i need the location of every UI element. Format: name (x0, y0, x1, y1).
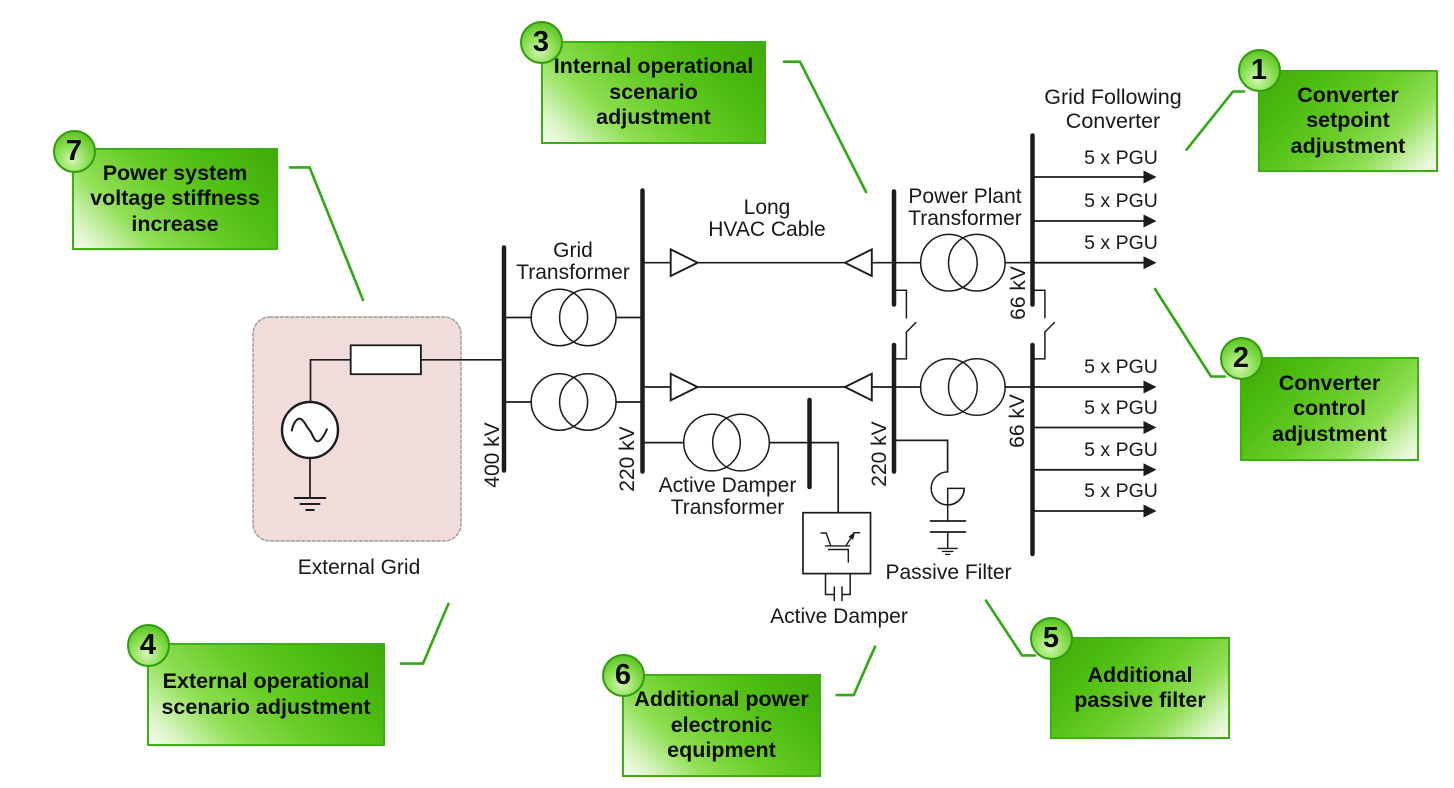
DC link legs (826, 574, 851, 601)
label power plant transformer (908, 186, 1022, 230)
bus 220 kV right upper (892, 192, 897, 305)
bus 66 kV lower (1030, 345, 1035, 554)
label 5 x PGU a1 (1084, 147, 1158, 169)
transformer power plant T3 (921, 234, 978, 291)
label 66 kV upper (1008, 266, 1030, 320)
wire damper T5 to damper bus and down to converter (769, 443, 838, 513)
wire source to resistor (311, 360, 351, 402)
switch 220kV bus coupler (894, 290, 906, 359)
leader line callout 6 (837, 647, 875, 695)
wire plant T4 to 66kV bus (1005, 386, 1032, 388)
callout box 5 additional passive filter (1050, 637, 1230, 739)
feeder 5xPGU a2 (1033, 220, 1145, 222)
callout box 4 external operational scenario adjustment (147, 643, 385, 746)
cable end cap right 2 (845, 374, 872, 401)
label 5 x PGU b2 (1084, 397, 1158, 419)
resistor external grid impedance (351, 345, 421, 374)
callout number 3 (520, 21, 563, 64)
capacitor passive filter (931, 521, 966, 532)
label 400 kV (482, 422, 504, 487)
bus active damper (807, 400, 812, 487)
cable end cap left 1 (671, 249, 698, 276)
wire plant T3 to 66kV bus (1005, 262, 1032, 264)
wire 220kV bus to plant transformer T3 (894, 262, 921, 264)
callout box 3 internal operational scenario adjustment (541, 41, 766, 144)
label 66 kV lower (1007, 394, 1029, 448)
wire grid T1 to 220kV bus (616, 317, 643, 319)
callout box 1 converter setpoint adjustment (1258, 70, 1438, 172)
IGBT symbol (821, 533, 860, 563)
transformer power plant T4 (921, 359, 978, 416)
wire HVAC cable 1 (643, 262, 895, 264)
feeder 5xPGU b1 (1033, 386, 1145, 388)
label 5 x PGU b4 (1084, 480, 1158, 502)
wire capacitor to ground (947, 532, 949, 548)
callout box 2 converter control adjustment (1240, 357, 1419, 461)
cable end cap right 1 (845, 249, 872, 276)
label long HVAC cable (708, 197, 826, 241)
callout number 4 (127, 624, 170, 667)
leader line callout 5 (986, 601, 1035, 656)
bus 400 kV (502, 248, 507, 471)
callout number 2 (1220, 337, 1263, 380)
callout number 6 (602, 654, 645, 697)
feeder 5xPGU a3 (1033, 262, 1145, 264)
label grid transformer (516, 240, 630, 284)
label active damper (770, 606, 908, 628)
reactor passive filter (931, 472, 964, 505)
wire 400kV bus to grid transformer T2 (504, 401, 531, 403)
feeder 5xPGU b3 (1033, 469, 1145, 471)
transformer active damper T5 (684, 414, 741, 471)
bus 220 kV left (640, 191, 645, 472)
cable end cap left 2 (671, 374, 698, 401)
leader line callout 2 (1155, 289, 1225, 377)
feeder 5xPGU b4 (1033, 510, 1145, 512)
wire HVAC cable 2 (643, 386, 895, 388)
wire 220kV bus to damper transformer T5 (643, 442, 684, 444)
AC voltage source (282, 402, 338, 458)
leader line callout 7 (290, 167, 363, 300)
leader line callout 1 (1187, 92, 1245, 150)
switch 66kV bus coupler (1033, 290, 1045, 359)
active damper converter box (803, 513, 871, 574)
label passive filter (885, 562, 1011, 584)
feeder 5xPGU a1 (1033, 176, 1145, 178)
transformer grid T2 (531, 374, 587, 430)
ground external grid (295, 498, 326, 510)
label 220 kV right (869, 421, 891, 486)
wire 220kV bus to plant transformer T4 (894, 386, 921, 388)
label 5 x PGU a2 (1084, 190, 1158, 212)
wire source to ground (309, 458, 311, 497)
external grid enclosure (253, 317, 461, 541)
wire resistor to 400kV bus (421, 359, 504, 361)
ground passive filter (938, 548, 957, 554)
bus 220 kV right lower (892, 345, 897, 472)
callout number 1 (1238, 49, 1281, 92)
label grid following converter (1044, 85, 1181, 133)
wire 400kV bus to grid transformer T1 (504, 317, 531, 319)
leader line callout 3 (784, 62, 866, 192)
callout box 6 additional power electronic equipment (622, 674, 821, 777)
label 5 x PGU b1 (1084, 356, 1158, 378)
callout number 5 (1030, 617, 1073, 660)
transformer grid T1 (531, 289, 587, 345)
leader line callout 4 (401, 604, 448, 664)
label 220 kV left (617, 426, 639, 491)
callout box 7 power system voltage stiffness increase (72, 148, 278, 250)
bus 66 kV upper (1030, 136, 1035, 305)
label external grid (298, 557, 421, 579)
feeder 5xPGU b2 (1033, 427, 1145, 429)
label 5 x PGU a3 (1084, 232, 1158, 254)
callout number 7 (53, 130, 96, 173)
label active damper transformer (659, 475, 797, 519)
label 5 x PGU b3 (1084, 439, 1158, 461)
wire grid T2 to 220kV bus (616, 401, 643, 403)
wire 220kV bus to passive filter (894, 440, 948, 472)
